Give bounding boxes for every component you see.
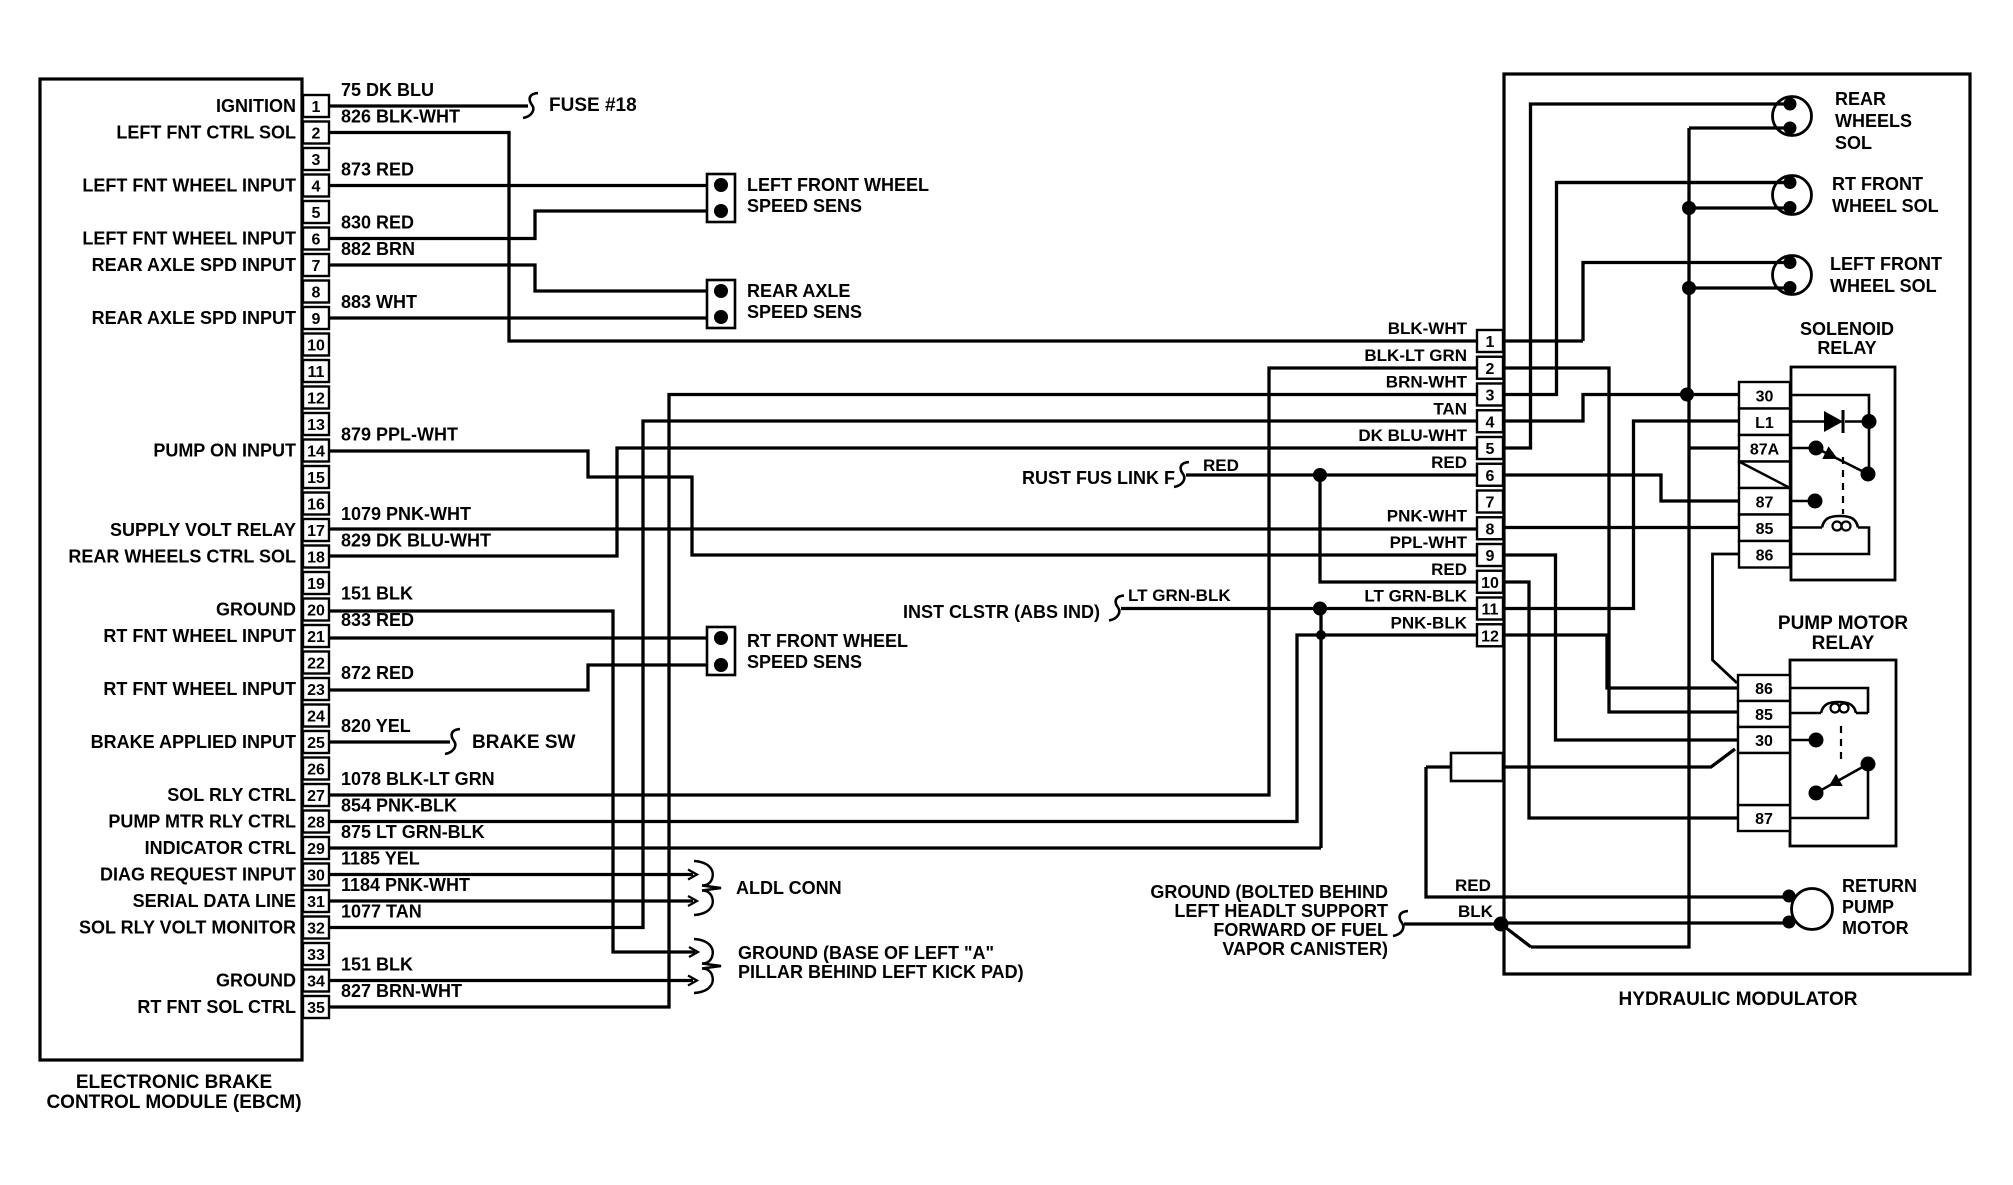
EBCM pin 5 box bbox=[303, 201, 329, 223]
EBCM pin 8 box bbox=[303, 281, 329, 303]
rear wheels solenoid circle bbox=[1773, 97, 1812, 136]
svg-text:21: 21 bbox=[307, 629, 325, 646]
wire 883 WHT pin9 to rear axle speed sensor bbox=[329, 316, 708, 319]
svg-text:PUMP ON INPUT: PUMP ON INPUT bbox=[153, 441, 296, 461]
svg-text:BRAKE APPLIED INPUT: BRAKE APPLIED INPUT bbox=[91, 732, 296, 752]
svg-text:3: 3 bbox=[1486, 388, 1495, 405]
EBCM pin 1 box bbox=[303, 95, 329, 117]
svg-text:11: 11 bbox=[1482, 602, 1499, 619]
modulator connector pin 3 box bbox=[1477, 384, 1503, 406]
svg-text:RT FNT SOL CTRL: RT FNT SOL CTRL bbox=[137, 997, 296, 1017]
wire 1079 PNK-WHT pin17 run to modulator pin8 bbox=[329, 527, 1477, 530]
svg-text:24: 24 bbox=[307, 709, 325, 726]
pump relay switch pivot dot bbox=[1861, 757, 1876, 772]
svg-text:WHEELS: WHEELS bbox=[1835, 111, 1912, 131]
svg-text:10: 10 bbox=[1481, 575, 1499, 592]
wire 151 BLK pin20 run to A-pillar ground bbox=[329, 611, 695, 952]
svg-text:RED: RED bbox=[1203, 456, 1239, 475]
modulator connector pin 1 box bbox=[1477, 330, 1503, 352]
svg-text:22: 22 bbox=[307, 656, 325, 673]
modulator connector pin 8 box bbox=[1477, 517, 1503, 539]
solenoid relay terminal 87A box bbox=[1739, 435, 1790, 462]
EBCM pin 19 box bbox=[303, 572, 329, 594]
junction dot solenoid relay 30 row bbox=[1680, 388, 1694, 402]
EBCM pin 25 box bbox=[303, 731, 329, 753]
svg-text:LEFT FNT WHEEL INPUT: LEFT FNT WHEEL INPUT bbox=[82, 176, 296, 196]
junction dot LT GRN-BLK at PNK-BLK crossing bbox=[1316, 630, 1326, 640]
EBCM pin 31 box bbox=[303, 890, 329, 912]
solenoid relay switch arm bbox=[1816, 448, 1868, 474]
EBCM pin 14 box bbox=[303, 440, 329, 462]
wire modulator pin9 to pump motor relay 30 bbox=[1503, 555, 1737, 740]
svg-text:875 LT GRN-BLK: 875 LT GRN-BLK bbox=[341, 822, 485, 842]
brake switch squiggle symbol bbox=[445, 729, 460, 754]
svg-text:ALDL CONN: ALDL CONN bbox=[736, 878, 842, 898]
svg-text:LEFT HEADLT SUPPORT: LEFT HEADLT SUPPORT bbox=[1174, 901, 1388, 921]
wire modulator pin2 to pump motor relay 85 bbox=[1503, 368, 1738, 712]
svg-text:IGNITION: IGNITION bbox=[216, 96, 296, 116]
svg-text:L1: L1 bbox=[1755, 415, 1774, 432]
svg-text:TAN: TAN bbox=[1433, 399, 1467, 418]
svg-text:PNK-WHT: PNK-WHT bbox=[1387, 506, 1468, 525]
wire INST CLSTR LT GRN-BLK to modulator pin11 bbox=[1121, 607, 1477, 610]
wire left front sol lower lead bbox=[1689, 286, 1789, 289]
svg-text:9: 9 bbox=[1486, 548, 1495, 565]
EBCM pin 24 box bbox=[303, 705, 329, 727]
svg-text:8: 8 bbox=[312, 285, 321, 302]
svg-text:87: 87 bbox=[1756, 495, 1774, 512]
svg-text:REAR AXLE SPD INPUT: REAR AXLE SPD INPUT bbox=[92, 308, 296, 328]
svg-text:26: 26 bbox=[307, 762, 325, 779]
svg-text:11: 11 bbox=[308, 364, 325, 381]
svg-text:30: 30 bbox=[1756, 389, 1774, 406]
svg-text:827 BRN-WHT: 827 BRN-WHT bbox=[341, 981, 462, 1001]
wire 1078 BLK-LT GRN pin27 run to modulator pin2 bbox=[329, 368, 1477, 795]
svg-text:REAR WHEELS CTRL SOL: REAR WHEELS CTRL SOL bbox=[68, 547, 296, 567]
pump relay switch arm bbox=[1816, 764, 1868, 793]
pump motor relay terminal 85 box bbox=[1738, 701, 1790, 727]
EBCM pin 12 box bbox=[303, 387, 329, 409]
EBCM pin 28 box bbox=[303, 811, 329, 833]
svg-text:7: 7 bbox=[1486, 495, 1495, 512]
rt front wheel solenoid circle bbox=[1773, 176, 1812, 215]
svg-text:MOTOR: MOTOR bbox=[1842, 918, 1909, 938]
svg-text:LT GRN-BLK: LT GRN-BLK bbox=[1364, 587, 1467, 606]
svg-text:17: 17 bbox=[307, 523, 325, 540]
ground brace (A-pillar) bbox=[694, 939, 721, 993]
wire 1185 YEL pin30 to ALDL connector bbox=[329, 873, 693, 876]
svg-text:SPEED SENS: SPEED SENS bbox=[747, 196, 862, 216]
modulator connector pin 6 box bbox=[1477, 464, 1503, 486]
wire modulator pin12 to pump motor relay 86 bbox=[1503, 635, 1738, 688]
wire 830 RED pin6 jog segment bbox=[329, 211, 708, 239]
svg-text:RED: RED bbox=[1455, 876, 1491, 895]
EBCM pin 2 box bbox=[303, 122, 329, 144]
wire 829 DK BLU-WHT pin18 run to modulator pin5 bbox=[329, 448, 1477, 556]
svg-text:32: 32 bbox=[307, 921, 325, 938]
wire 827 BRN-WHT pin35 run to modulator pin3 bbox=[329, 395, 1477, 1008]
svg-text:87A: 87A bbox=[1750, 442, 1780, 459]
wire modulator pin5 to rear wheels sol bbox=[1503, 104, 1789, 448]
wire pump feed box stub bbox=[1426, 765, 1451, 768]
svg-text:16: 16 bbox=[307, 497, 325, 514]
svg-text:3: 3 bbox=[312, 152, 321, 169]
EBCM pin 10 box bbox=[303, 334, 329, 356]
solenoid relay diode bbox=[1790, 420, 1824, 423]
svg-text:SOL RLY CTRL: SOL RLY CTRL bbox=[167, 785, 296, 805]
svg-text:830 RED: 830 RED bbox=[341, 213, 414, 233]
svg-text:27: 27 bbox=[307, 788, 325, 805]
EBCM pin 26 box bbox=[303, 758, 329, 780]
pump feed component box bbox=[1451, 753, 1503, 781]
svg-text:LEFT FRONT: LEFT FRONT bbox=[1830, 254, 1942, 274]
pump relay moving contact dot bbox=[1809, 786, 1824, 801]
svg-text:87: 87 bbox=[1755, 811, 1773, 828]
svg-text:BLK: BLK bbox=[1458, 902, 1494, 921]
svg-text:8: 8 bbox=[1486, 521, 1495, 538]
svg-text:873 RED: 873 RED bbox=[341, 160, 414, 180]
svg-text:GROUND: GROUND bbox=[216, 971, 296, 991]
EBCM pin 4 box bbox=[303, 175, 329, 197]
wire BLK to return pump motor lower bbox=[1501, 921, 1789, 924]
svg-text:1: 1 bbox=[312, 99, 321, 116]
svg-text:PNK-BLK: PNK-BLK bbox=[1391, 613, 1468, 632]
EBCM module box (ELECTRONIC BRAKE CONTROL MODULE) bbox=[40, 79, 302, 1060]
svg-text:151 BLK: 151 BLK bbox=[341, 584, 413, 604]
pump relay mechanical dashed link bbox=[1840, 726, 1842, 762]
svg-text:4: 4 bbox=[312, 179, 321, 196]
EBCM pin 32 box bbox=[303, 917, 329, 939]
wire RED branch to modulator pin10 bbox=[1320, 475, 1477, 582]
svg-text:INST CLSTR (ABS IND): INST CLSTR (ABS IND) bbox=[903, 602, 1100, 622]
wire 75 DK BLU pin1 to FUSE #18 bbox=[329, 104, 528, 107]
rust fus link squiggle bbox=[1174, 462, 1189, 487]
svg-text:833 RED: 833 RED bbox=[341, 610, 414, 630]
wire modulator pin6 to solenoid relay 87 bbox=[1503, 475, 1739, 501]
junction dot rt front sol common bbox=[1682, 201, 1696, 215]
svg-text:20: 20 bbox=[307, 603, 325, 620]
wire rt front sol upper lead bbox=[1557, 181, 1790, 184]
ground bolted squiggle bbox=[1393, 911, 1408, 936]
wire 873 RED pin4 to left front wheel speed sensor bbox=[329, 184, 708, 187]
svg-text:5: 5 bbox=[312, 205, 321, 222]
svg-text:SPEED SENS: SPEED SENS bbox=[747, 652, 862, 672]
svg-text:5: 5 bbox=[1486, 441, 1495, 458]
svg-text:SPEED SENS: SPEED SENS bbox=[747, 302, 862, 322]
solenoid relay outer box bbox=[1791, 367, 1895, 580]
svg-text:PUMP MOTOR: PUMP MOTOR bbox=[1778, 613, 1908, 634]
svg-text:RED: RED bbox=[1431, 560, 1467, 579]
wire BLK diagonal to solenoid common bbox=[1501, 924, 1531, 947]
modulator connector pin 9 box bbox=[1477, 544, 1503, 566]
svg-text:FUSE #18: FUSE #18 bbox=[549, 95, 637, 116]
svg-text:GROUND (BOLTED BEHIND: GROUND (BOLTED BEHIND bbox=[1150, 882, 1388, 902]
svg-text:15: 15 bbox=[307, 470, 325, 487]
svg-text:RETURN: RETURN bbox=[1842, 876, 1917, 896]
junction dot LT GRN-BLK bbox=[1313, 602, 1327, 616]
fuse #18 squiggle symbol bbox=[523, 93, 538, 118]
EBCM pin 21 box bbox=[303, 625, 329, 647]
svg-text:23: 23 bbox=[307, 682, 325, 699]
EBCM pin 18 box bbox=[303, 546, 329, 568]
pump relay 87 internal wire bbox=[1790, 764, 1868, 818]
svg-text:PUMP: PUMP bbox=[1842, 897, 1894, 917]
EBCM pin 20 box bbox=[303, 599, 329, 621]
EBCM pin 29 box bbox=[303, 837, 329, 859]
wire rt front sol lower lead bbox=[1689, 206, 1789, 209]
svg-text:12: 12 bbox=[1481, 628, 1499, 645]
svg-text:BRN-WHT: BRN-WHT bbox=[1386, 373, 1468, 392]
solenoid relay mechanical dashed link bbox=[1842, 457, 1844, 514]
EBCM pin 15 box bbox=[303, 466, 329, 488]
svg-text:VAPOR CANISTER): VAPOR CANISTER) bbox=[1222, 939, 1388, 959]
pump relay 86 internal wire bbox=[1790, 688, 1868, 713]
svg-text:1: 1 bbox=[1486, 334, 1495, 351]
pump relay coil bbox=[1790, 712, 1821, 715]
wire modulator pin8 to solenoid relay 85 bbox=[1503, 526, 1739, 529]
svg-text:CONTROL MODULE (EBCM): CONTROL MODULE (EBCM) bbox=[46, 1092, 301, 1113]
solenoid relay terminal L1 box bbox=[1739, 409, 1790, 436]
svg-text:6: 6 bbox=[312, 232, 321, 249]
junction dot diode and 30 bbox=[1862, 414, 1877, 429]
solenoid relay switch pivot dot bbox=[1861, 467, 1876, 482]
svg-text:18: 18 bbox=[307, 550, 325, 567]
EBCM pin 16 box bbox=[303, 493, 329, 515]
svg-text:872 RED: 872 RED bbox=[341, 663, 414, 683]
svg-text:FORWARD OF FUEL: FORWARD OF FUEL bbox=[1213, 920, 1388, 940]
modulator connector pin 10 box bbox=[1477, 571, 1503, 593]
svg-text:GROUND (BASE OF LEFT "A": GROUND (BASE OF LEFT "A" bbox=[738, 943, 994, 963]
svg-text:PUMP MTR RLY CTRL: PUMP MTR RLY CTRL bbox=[108, 812, 296, 832]
svg-text:LEFT FNT WHEEL INPUT: LEFT FNT WHEEL INPUT bbox=[82, 229, 296, 249]
modulator connector pin 12 box bbox=[1477, 624, 1503, 646]
pump motor relay outer box bbox=[1790, 660, 1896, 846]
svg-text:LEFT FNT CTRL SOL: LEFT FNT CTRL SOL bbox=[116, 123, 296, 143]
EBCM pin 35 box bbox=[303, 996, 329, 1018]
solenoid relay terminal 30 box bbox=[1739, 382, 1790, 409]
svg-text:RELAY: RELAY bbox=[1817, 338, 1876, 358]
modulator connector pin 11 box bbox=[1477, 598, 1503, 620]
svg-text:33: 33 bbox=[307, 947, 325, 964]
wire 1184 PNK-WHT pin31 to ALDL connector bbox=[329, 899, 693, 902]
EBCM pin 34 box bbox=[303, 970, 329, 992]
EBCM pin 3 box bbox=[303, 148, 329, 170]
svg-text:2: 2 bbox=[1486, 361, 1495, 378]
hydraulic modulator box bbox=[1504, 74, 1970, 974]
arrow into ground brace upper bbox=[689, 947, 698, 957]
svg-text:1184 PNK-WHT: 1184 PNK-WHT bbox=[341, 875, 470, 895]
svg-text:75 DK BLU: 75 DK BLU bbox=[341, 80, 434, 100]
wire modulator pin10 to pump motor relay 87 bbox=[1503, 582, 1738, 818]
svg-text:ELECTRONIC BRAKE: ELECTRONIC BRAKE bbox=[76, 1072, 272, 1093]
wire modulator pin11 to solenoid relay L1 bbox=[1503, 421, 1739, 609]
inst clstr squiggle bbox=[1109, 596, 1124, 621]
wire 854 PNK-BLK pin28 run to modulator pin12 bbox=[329, 635, 1477, 822]
EBCM pin 27 box bbox=[303, 784, 329, 806]
svg-text:WHEEL SOL: WHEEL SOL bbox=[1830, 276, 1937, 296]
EBCM pin 30 box bbox=[303, 864, 329, 886]
pump motor relay terminal 87 box bbox=[1738, 805, 1790, 831]
wire 875 LT GRN-BLK pin29 run bbox=[329, 846, 1321, 849]
wire modulator pin3 to rt front wheel sol bbox=[1503, 183, 1789, 395]
EBCM pin 6 box bbox=[303, 228, 329, 250]
svg-text:REAR: REAR bbox=[1835, 89, 1886, 109]
svg-text:SOLENOID: SOLENOID bbox=[1800, 319, 1894, 339]
svg-text:28: 28 bbox=[307, 815, 325, 832]
wire pump feed box to pump relay 30 diagonal bbox=[1503, 749, 1735, 767]
svg-text:30: 30 bbox=[1755, 733, 1773, 750]
ALDL connector brace bbox=[694, 861, 721, 915]
svg-text:WHEEL SOL: WHEEL SOL bbox=[1832, 196, 1939, 216]
svg-text:1077 TAN: 1077 TAN bbox=[341, 902, 422, 922]
solenoid relay coil bbox=[1790, 526, 1822, 529]
svg-text:RUST FUS LINK F: RUST FUS LINK F bbox=[1022, 468, 1175, 488]
svg-text:GROUND: GROUND bbox=[216, 600, 296, 620]
svg-text:35: 35 bbox=[307, 1000, 325, 1017]
svg-text:REAR AXLE: REAR AXLE bbox=[747, 281, 850, 301]
modulator connector pin 5 box bbox=[1477, 437, 1503, 459]
svg-text:RT FNT WHEEL INPUT: RT FNT WHEEL INPUT bbox=[103, 626, 296, 646]
svg-text:1079 PNK-WHT: 1079 PNK-WHT bbox=[341, 504, 471, 524]
svg-text:2: 2 bbox=[312, 126, 321, 143]
modulator connector pin 4 box bbox=[1477, 410, 1503, 432]
wire 1077 TAN pin32 run to modulator pin4 bbox=[329, 421, 1477, 928]
pump relay blank cell box bbox=[1738, 753, 1790, 805]
svg-text:DK BLU-WHT: DK BLU-WHT bbox=[1358, 426, 1467, 445]
svg-text:879 PPL-WHT: 879 PPL-WHT bbox=[341, 425, 458, 445]
junction dot BLK ground bbox=[1494, 917, 1509, 932]
wire 879 PPL-WHT pin14 run to modulator pin9 bbox=[329, 451, 1477, 555]
wire left front sol control vertical bbox=[1583, 263, 1789, 342]
svg-text:SOL RLY VOLT MONITOR: SOL RLY VOLT MONITOR bbox=[79, 918, 296, 938]
solenoid relay terminal 86 box bbox=[1739, 541, 1790, 568]
svg-text:7: 7 bbox=[312, 258, 321, 275]
svg-text:RT FNT WHEEL INPUT: RT FNT WHEEL INPUT bbox=[103, 679, 296, 699]
solenoid relay blank cell diagonal bbox=[1739, 462, 1790, 489]
svg-text:REAR AXLE SPD INPUT: REAR AXLE SPD INPUT bbox=[92, 255, 296, 275]
svg-text:13: 13 bbox=[307, 417, 325, 434]
svg-text:RELAY: RELAY bbox=[1812, 633, 1875, 654]
wire modulator pin1 to left front wheel sol bbox=[1503, 339, 1583, 342]
svg-text:34: 34 bbox=[307, 974, 325, 991]
svg-text:854 PNK-BLK: 854 PNK-BLK bbox=[341, 796, 457, 816]
solenoid relay 87A contact bbox=[1790, 447, 1812, 450]
EBCM pin 17 box bbox=[303, 519, 329, 541]
svg-text:86: 86 bbox=[1756, 548, 1774, 565]
svg-text:SUPPLY VOLT RELAY: SUPPLY VOLT RELAY bbox=[110, 520, 296, 540]
svg-text:19: 19 bbox=[307, 576, 325, 593]
EBCM pin 11 box bbox=[303, 360, 329, 382]
svg-text:RED: RED bbox=[1431, 453, 1467, 472]
wire modulator pin4 jog to solenoid relay 30 bbox=[1503, 395, 1739, 422]
left front wheel speed sensor connector bbox=[707, 174, 735, 222]
svg-text:SERIAL DATA LINE: SERIAL DATA LINE bbox=[133, 891, 296, 911]
EBCM pin 33 box bbox=[303, 943, 329, 965]
svg-text:LT GRN-BLK: LT GRN-BLK bbox=[1128, 586, 1231, 605]
svg-text:HYDRAULIC MODULATOR: HYDRAULIC MODULATOR bbox=[1619, 989, 1858, 1010]
wire 151 BLK pin34 to A-pillar ground bbox=[329, 979, 693, 982]
junction dot RED wire bbox=[1313, 468, 1327, 482]
svg-text:BRAKE SW: BRAKE SW bbox=[472, 732, 576, 753]
svg-text:826 BLK-WHT: 826 BLK-WHT bbox=[341, 107, 460, 127]
pump motor relay terminal 30 box bbox=[1738, 727, 1790, 753]
svg-text:829 DK BLU-WHT: 829 DK BLU-WHT bbox=[341, 531, 491, 551]
wire 833 RED pin21 to rt front wheel speed sensor bbox=[329, 636, 708, 639]
EBCM pin 9 box bbox=[303, 307, 329, 329]
wire RED to return pump motor bbox=[1426, 767, 1789, 897]
svg-text:1185 YEL: 1185 YEL bbox=[341, 849, 420, 869]
svg-text:RT FRONT: RT FRONT bbox=[1832, 174, 1923, 194]
EBCM pin 7 box bbox=[303, 254, 329, 276]
svg-text:31: 31 bbox=[307, 894, 325, 911]
wire rear wheels sol lower lead bbox=[1689, 126, 1789, 129]
modulator connector pin 7 box bbox=[1477, 491, 1503, 513]
svg-text:6: 6 bbox=[1486, 468, 1495, 485]
svg-text:BLK-LT GRN: BLK-LT GRN bbox=[1364, 346, 1467, 365]
svg-text:BLK-WHT: BLK-WHT bbox=[1388, 319, 1468, 338]
wire RUST FUS LINK F RED to modulator pin6 bbox=[1186, 473, 1477, 476]
svg-text:DIAG REQUEST INPUT: DIAG REQUEST INPUT bbox=[100, 865, 296, 885]
svg-text:RT FRONT WHEEL: RT FRONT WHEEL bbox=[747, 631, 908, 651]
solenoid relay terminal 85 box bbox=[1739, 515, 1790, 542]
svg-text:151 BLK: 151 BLK bbox=[341, 955, 413, 975]
svg-text:1078 BLK-LT GRN: 1078 BLK-LT GRN bbox=[341, 769, 495, 789]
solenoid relay terminal blank box bbox=[1739, 462, 1790, 489]
wire 826 BLK-WHT pin2 segment bbox=[329, 133, 1477, 342]
svg-text:29: 29 bbox=[307, 841, 325, 858]
svg-text:4: 4 bbox=[1486, 414, 1495, 431]
wire 875 vertical branch to LT GRN-BLK junction bbox=[1319, 609, 1322, 849]
junction dot left front sol common bbox=[1682, 281, 1696, 295]
solenoid relay terminal 87 box bbox=[1739, 488, 1790, 515]
svg-text:12: 12 bbox=[307, 391, 325, 408]
wire 872 RED pin23 jog segment bbox=[329, 665, 708, 690]
svg-text:10: 10 bbox=[307, 338, 325, 355]
svg-text:820 YEL: 820 YEL bbox=[341, 716, 411, 736]
svg-text:14: 14 bbox=[307, 444, 325, 461]
svg-text:883 WHT: 883 WHT bbox=[341, 292, 417, 312]
wire 820 YEL pin25 to brake switch bbox=[329, 740, 450, 743]
EBCM pin 23 box bbox=[303, 678, 329, 700]
svg-text:PPL-WHT: PPL-WHT bbox=[1390, 533, 1468, 552]
return pump motor circle bbox=[1792, 889, 1833, 930]
svg-text:882 BRN: 882 BRN bbox=[341, 239, 415, 259]
rear axle speed sensor connector bbox=[707, 280, 735, 328]
pump motor relay terminal 86 box bbox=[1738, 675, 1790, 701]
solenoid relay 87 contact bbox=[1790, 500, 1811, 503]
svg-text:30: 30 bbox=[307, 868, 325, 885]
wire common to solenoid relay 87A bbox=[1689, 446, 1739, 449]
solenoid relay 30 internal wire bbox=[1790, 395, 1869, 474]
svg-text:9: 9 bbox=[312, 311, 321, 328]
left front wheel solenoid circle bbox=[1773, 256, 1812, 295]
wire 882 BRN pin7 jog segment bbox=[329, 265, 708, 291]
svg-text:SOL: SOL bbox=[1835, 133, 1872, 153]
EBCM pin 13 box bbox=[303, 413, 329, 435]
svg-text:85: 85 bbox=[1755, 707, 1773, 724]
EBCM pin 22 box bbox=[303, 652, 329, 674]
pump relay 30 contact bbox=[1790, 739, 1812, 742]
svg-text:85: 85 bbox=[1756, 521, 1774, 538]
svg-text:25: 25 bbox=[307, 735, 325, 752]
wire BLK ground lead bbox=[1404, 922, 1501, 925]
svg-text:INDICATOR CTRL: INDICATOR CTRL bbox=[145, 838, 296, 858]
svg-text:86: 86 bbox=[1755, 681, 1773, 698]
wire sol relay 86 to pump relay 86 vertical bbox=[1713, 554, 1740, 683]
svg-text:PILLAR BEHIND LEFT KICK PAD): PILLAR BEHIND LEFT KICK PAD) bbox=[738, 962, 1024, 982]
modulator connector pin 2 box bbox=[1477, 357, 1503, 379]
rt front wheel speed sensor connector bbox=[707, 627, 735, 675]
